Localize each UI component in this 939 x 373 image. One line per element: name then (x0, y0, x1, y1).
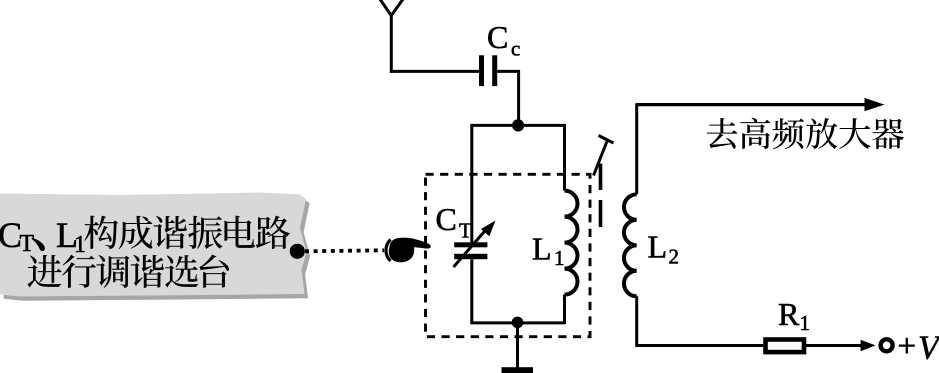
output arrowhead (865, 98, 885, 111)
svg-text:V: V (918, 330, 939, 367)
dotted pointer line (305, 250, 384, 251)
junction node top (512, 119, 524, 131)
core adjust T-arrow (594, 136, 614, 176)
svg-text:T: T (20, 231, 35, 257)
svg-text:L: L (532, 231, 552, 267)
svg-text:L: L (648, 229, 668, 265)
terminal circle (881, 339, 893, 351)
dashed enclosure box (426, 174, 591, 336)
wire tank right upper (to L1) (563, 124, 566, 191)
wire Cc to tank junction (497, 71, 518, 125)
antenna (377, 0, 406, 73)
inductor L2 coil (624, 194, 637, 296)
wire L2 bottom to R1 (637, 296, 764, 345)
output wire to amplifier (637, 103, 866, 106)
callout text line1: C_T, L_1 构成谐振电路 (0, 215, 290, 258)
arrowhead at terminal (861, 340, 876, 351)
svg-text:R: R (778, 296, 800, 332)
svg-text:1: 1 (74, 232, 86, 258)
wire R1 to terminal (806, 344, 862, 347)
svg-text:+: + (898, 329, 917, 365)
wire antenna to Cc (390, 70, 479, 73)
svg-text:C: C (436, 201, 457, 237)
ground bar (502, 367, 534, 373)
CT adjust arrow (454, 229, 488, 268)
inductor L1 (565, 191, 578, 295)
svg-text:T: T (459, 219, 472, 243)
wire tank right lower (from L1) (563, 295, 566, 324)
svg-text:1: 1 (800, 311, 811, 335)
svg-text:1: 1 (554, 246, 565, 270)
wire L2 top vertical (635, 103, 638, 194)
label 去高频放大器 (707, 118, 904, 150)
svg-text:c: c (511, 37, 520, 61)
callout text line2: 进行调谐选台 (28, 255, 230, 288)
hand pointer icon (386, 238, 431, 263)
resistor R1 (766, 340, 805, 353)
callout box fill (0, 193, 307, 297)
callout box (torn paper) shadow (4, 197, 311, 301)
adjustable core dashes (599, 164, 603, 228)
junction node bottom (512, 317, 524, 329)
svg-text:2: 2 (669, 245, 680, 269)
wire CT branch lower + tank bottom (472, 259, 565, 323)
pointer dot at callout edge (290, 244, 305, 259)
ground wire stub (516, 322, 519, 368)
capacitor Cc (479, 55, 497, 86)
svg-text:C: C (487, 19, 508, 55)
variable capacitor CT plates (454, 242, 487, 259)
wire tank top + left (CT branch upper) (472, 125, 565, 242)
